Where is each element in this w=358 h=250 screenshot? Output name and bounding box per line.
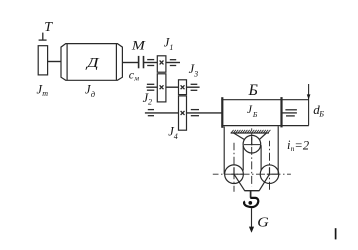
gear box 3 on shaft 2 xyxy=(179,80,187,95)
svg-text:2: 2 xyxy=(148,98,152,107)
lower right pulley axis vertical mark xyxy=(269,167,271,175)
shaft 2 xyxy=(146,86,157,88)
fixed ceiling hatching xyxy=(231,130,270,133)
rope right from drum xyxy=(277,126,279,174)
cage right slant xyxy=(259,174,269,191)
lower right pulley xyxy=(260,165,279,184)
drum shell xyxy=(221,100,308,126)
top pulley axis vertical mark xyxy=(251,137,253,145)
bearing shaft1 right xyxy=(170,60,176,66)
label d_B xyxy=(313,102,324,119)
svg-text:Б: Б xyxy=(318,110,324,119)
bearing shaft2 right xyxy=(191,84,198,90)
svg-text:=2: =2 xyxy=(294,138,309,152)
svg-text:Б: Б xyxy=(248,82,259,99)
bracket to top pulley xyxy=(234,133,267,140)
svg-text:т: т xyxy=(42,89,48,98)
vertical centerline lower right pulley xyxy=(269,141,271,192)
load arrow G xyxy=(249,208,254,233)
lower left pulley cross xyxy=(231,173,243,175)
svg-text:1: 1 xyxy=(169,43,173,52)
gear box 4 on shaft 3 xyxy=(179,96,187,130)
coupling c_m two bars xyxy=(139,56,144,68)
hook xyxy=(244,198,258,207)
label J_D xyxy=(85,82,96,99)
hook shank xyxy=(250,191,252,198)
bearing shaft3 left xyxy=(148,110,154,116)
label J_T xyxy=(37,83,49,99)
gear 1 cross xyxy=(160,61,164,65)
svg-text:Д: Д xyxy=(84,56,100,71)
shaft brake to motor xyxy=(48,61,61,63)
gear 4 cross xyxy=(181,111,185,115)
lower left pulley xyxy=(225,165,244,184)
svg-text:Б: Б xyxy=(252,110,258,119)
shaft 3 xyxy=(145,112,179,114)
brake actuator symbol xyxy=(39,33,47,41)
rope inner left xyxy=(242,146,244,171)
drum left end disc xyxy=(221,97,223,128)
stray mark bottom right xyxy=(335,228,337,239)
label i_p=2 xyxy=(287,138,309,153)
label c_m xyxy=(129,67,140,82)
rope left from drum xyxy=(223,127,225,175)
gear 2 cross xyxy=(160,85,164,89)
rope inner right xyxy=(260,145,262,170)
label J_4 xyxy=(168,124,178,141)
label J_1 xyxy=(164,36,174,53)
bearing shaft3 right xyxy=(191,110,199,116)
svg-text:м: м xyxy=(133,73,139,82)
dimension line d_B xyxy=(307,84,311,125)
top pulley xyxy=(243,135,261,153)
motor body xyxy=(61,44,122,81)
cage left slant xyxy=(234,174,245,191)
horizontal centerline pulleys xyxy=(213,173,291,175)
brake wheel rectangle xyxy=(38,46,47,75)
bearing shaft1 left xyxy=(147,60,154,66)
label J_B xyxy=(247,104,258,119)
label J_3 xyxy=(189,62,199,79)
svg-text:G: G xyxy=(257,215,269,230)
gear box 2 on shaft 2 xyxy=(157,74,166,102)
label J_2 xyxy=(143,91,152,107)
drum right end disc xyxy=(280,97,282,127)
fixed ceiling line xyxy=(231,132,269,134)
vertical centerline lower left pulley xyxy=(233,143,235,192)
svg-text:M: M xyxy=(131,39,146,53)
lower right pulley cross xyxy=(267,173,279,175)
cage bottom bar xyxy=(244,190,259,192)
hook pivot dot xyxy=(248,201,252,205)
centerline vertical top pulley xyxy=(251,126,253,187)
top pulley axis cross xyxy=(244,144,260,146)
shaft 1 xyxy=(144,62,158,64)
svg-text:4: 4 xyxy=(174,132,178,141)
svg-text:д: д xyxy=(91,89,96,99)
svg-text:3: 3 xyxy=(193,69,198,78)
drum shaft stub and bearing xyxy=(282,110,297,116)
gear box 1 on shaft 1 xyxy=(157,56,166,72)
bearing shaft2 left xyxy=(147,84,154,90)
svg-text:T: T xyxy=(44,20,53,35)
shaft motor to coupling xyxy=(122,62,138,64)
lower left pulley axis vertical mark xyxy=(233,167,235,175)
gear 3 cross xyxy=(181,85,185,89)
